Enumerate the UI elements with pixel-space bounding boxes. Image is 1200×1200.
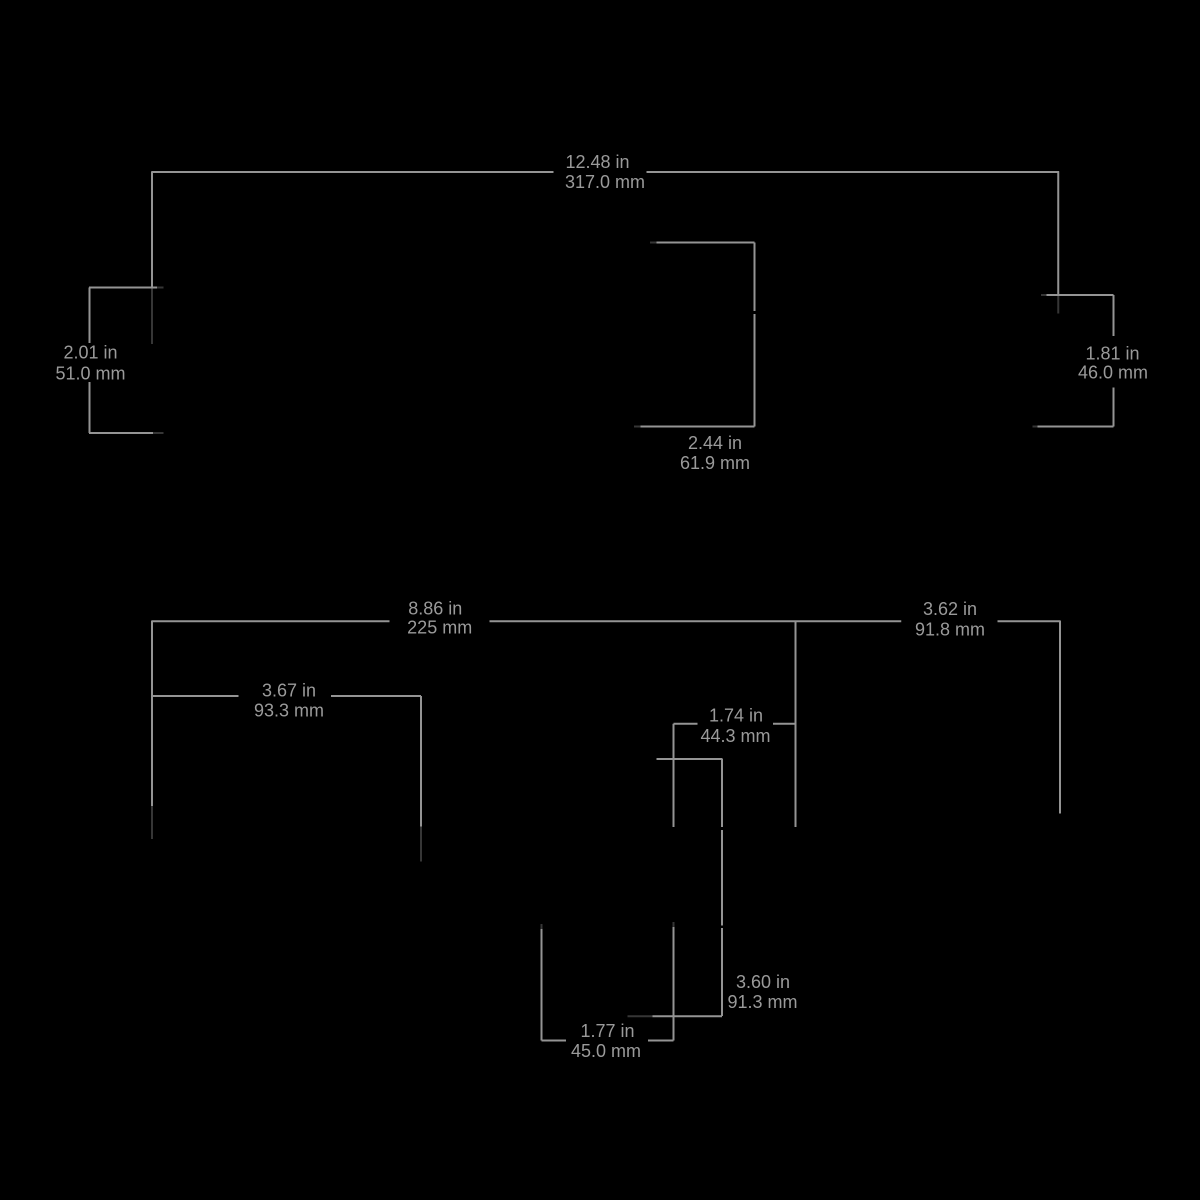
svg-text:46.0 mm: 46.0 mm [1078, 362, 1148, 382]
dimension line: centre height (notch at product edge) [754, 243, 756, 427]
tick fade: bottom of centre height [634, 426, 641, 428]
extension line fade: 3.67 in right end over product [420, 827, 422, 862]
svg-text:3.60 in: 3.60 in [736, 972, 790, 992]
extension line: top view right edge [1059, 621, 1061, 814]
dimension line: 3.60 in (notches at product edges) [721, 759, 723, 1016]
dimension line: 3.67 in (broken for label) [152, 695, 421, 697]
extension line: front view left edge [151, 171, 153, 287]
svg-text:3.67 in: 3.67 in [262, 681, 316, 701]
svg-text:61.9 mm: 61.9 mm [680, 453, 750, 473]
tick fade: bottom of 3.60 in [628, 1015, 653, 1017]
tick: top of centre height [657, 242, 755, 244]
tick: top of right height [1047, 294, 1114, 296]
extension line fade: 1.77 in left tip [541, 924, 543, 929]
tick fade: top of centre height [650, 242, 657, 244]
dimension line: overall width 12.48 in (two segments with label gap) [152, 171, 1059, 173]
extension line fade: front view right edge over product [1057, 295, 1059, 314]
svg-text:2.01 in: 2.01 in [63, 343, 117, 363]
svg-text:91.3 mm: 91.3 mm [727, 992, 797, 1012]
svg-text:317.0 mm: 317.0 mm [565, 172, 645, 192]
dimension line: right height (broken for label) [1113, 295, 1115, 427]
extension line fade: 1.77 in right tip [673, 922, 675, 927]
svg-text:44.3 mm: 44.3 mm [700, 726, 770, 746]
dimension line: 1.74 in (broken for label) [674, 723, 796, 725]
svg-text:8.86 in: 8.86 in [408, 599, 462, 619]
tick: bottom of centre height [641, 426, 755, 428]
svg-text:12.48 in: 12.48 in [565, 152, 629, 172]
extension line: 1.77 in left [541, 929, 543, 1041]
svg-text:2.44 in: 2.44 in [688, 433, 742, 453]
svg-text:1.81 in: 1.81 in [1085, 344, 1139, 364]
tick: top of left height [89, 287, 157, 289]
dimension line: top view widths 8.86 in and 3.62 in (gaps for labels) [152, 620, 1060, 622]
extension line: front view right edge [1057, 171, 1059, 295]
svg-text:51.0 mm: 51.0 mm [55, 364, 125, 384]
extension line fade: top view left edge over product [151, 806, 153, 839]
svg-text:93.3 mm: 93.3 mm [254, 701, 324, 721]
tick fade: top of left height [157, 287, 164, 289]
svg-text:1.74 in: 1.74 in [709, 706, 763, 726]
tick: bottom of left height [89, 432, 153, 434]
extension line: 1.77 in right [673, 927, 675, 1041]
tick: bottom of 3.60 in [653, 1015, 723, 1017]
tick fade: bottom of right height [1033, 426, 1038, 428]
extension line: top view middle split [795, 621, 797, 828]
extension line: 1.74 in left end [673, 724, 675, 827]
extension line: 3.67 in right end [420, 696, 422, 827]
tick: bottom of right height [1038, 426, 1114, 428]
tick fade: bottom of left height [153, 432, 164, 434]
extension line: top view left edge [151, 621, 153, 807]
tick: top of 3.60 in [657, 758, 723, 760]
svg-text:3.62 in: 3.62 in [923, 599, 977, 619]
tick fade: top of right height [1041, 294, 1047, 296]
svg-text:1.77 in: 1.77 in [580, 1021, 634, 1041]
svg-text:45.0 mm: 45.0 mm [571, 1041, 641, 1061]
dimension line: left height (broken for label) [89, 288, 91, 434]
svg-text:225 mm: 225 mm [407, 618, 472, 638]
dimension line: 1.77 in (broken for label) [542, 1040, 674, 1042]
extension line fade: front view left edge over product [151, 288, 153, 345]
svg-text:91.8 mm: 91.8 mm [915, 620, 985, 640]
